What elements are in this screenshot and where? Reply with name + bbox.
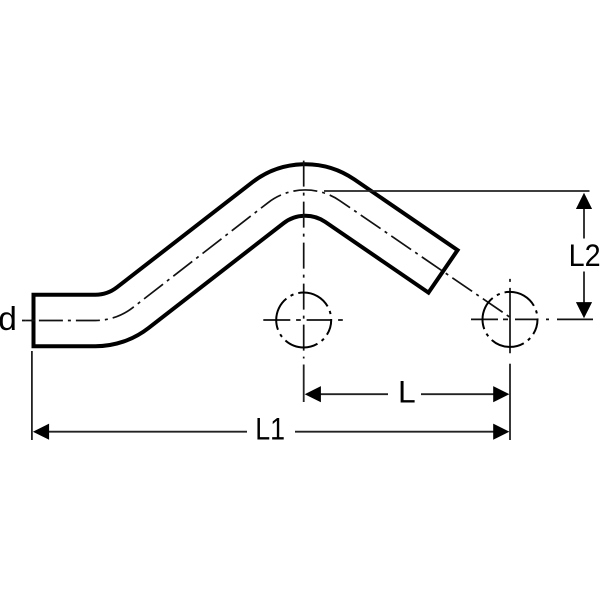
- pipe axis centerline (dash-dot along pipe, extended to circle C2 center): [22, 190, 510, 321]
- dimension L line segments: [320, 393, 494, 395]
- dimension L1 line segments: [48, 431, 494, 433]
- circle C1 (left connection cross-section, dashed): [276, 293, 331, 348]
- circle C2 (right connection cross-section, dashed): [483, 292, 538, 347]
- centerline starter dash left of pipe inlet: [26, 320, 35, 322]
- extension line below circle C1: [303, 365, 305, 403]
- dimension L1 arrowhead left: [33, 424, 49, 440]
- dimension L1 arrowhead right: [493, 424, 509, 440]
- dimension L2 arrowhead down: [576, 302, 592, 318]
- extension line below circle C2: [509, 364, 511, 440]
- dimension L arrowhead right: [493, 386, 509, 402]
- vertical centerline through circle C2: [509, 279, 511, 354]
- dimension L2 line segments: [583, 209, 585, 303]
- extension line top horizontal (peak level): [324, 190, 590, 192]
- pipe body interior (white): [36, 190, 442, 321]
- svg-text:L2: L2: [569, 237, 600, 273]
- extension line left (below pipe inlet): [31, 351, 33, 440]
- vertical centerline through peak and circle C1: [303, 161, 305, 359]
- svg-text:L1: L1: [255, 410, 285, 446]
- pipe body silhouette (black): [32, 190, 445, 321]
- dimension L arrowhead left: [305, 386, 321, 402]
- svg-text:L: L: [398, 373, 416, 409]
- svg-text:d: d: [0, 301, 17, 338]
- horizontal crosshair of circle C2 extended right: [470, 318, 593, 320]
- dimension L2 arrowhead up: [576, 193, 592, 209]
- horizontal crosshair of circle C1: [263, 319, 344, 321]
